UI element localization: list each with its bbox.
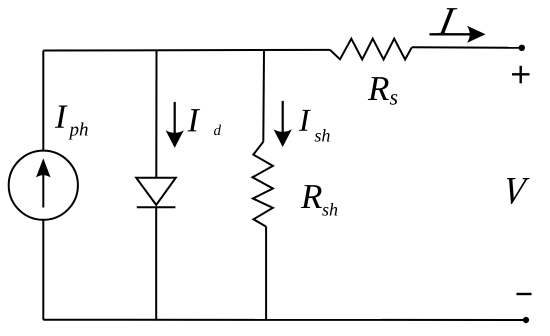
label R_sh [301,185,322,208]
wire: diode branch lower, cathode down to bottom rail [155,207,157,319]
wire: shunt branch upper, top rail down to R_sh [262,50,265,142]
label R_s [368,77,389,100]
label V (output voltage) [504,178,530,204]
label + (positive terminal polarity) [512,66,530,84]
arrow: output current I, pointing right [430,26,486,43]
resistor R_sh (shunt resistor vertical zigzag) [253,142,273,227]
wire: left branch lower, current source down to bottom rail [42,220,44,320]
node: positive output terminal dot [519,45,525,51]
wire: top rail, right segment from Rs to positive terminal [412,46,522,49]
node: negative output terminal dot [523,317,529,323]
label I_ph [55,106,68,128]
wire: diode branch upper, top rail down to diode anode [155,50,157,178]
current source I_ph circle [9,151,78,220]
label I_sh [299,110,311,131]
resistor R_s (series resistor zigzag) [330,39,412,60]
wire: top rail, left segment from top-left corner to Rs [43,49,330,52]
arrow: shunt current I_sh annotation, pointing down [274,101,292,147]
label I (output current) [437,8,458,34]
diode D: cathode bar [137,206,176,208]
arrow: current source arrow pointing up inside circle [36,158,51,207]
wire: bottom rail [43,319,526,321]
wire: shunt branch lower, R_sh down to bottom rail [265,227,267,320]
label I_d [187,109,200,131]
diode D: triangle pointing down (anode) [136,178,176,205]
label - (negative terminal polarity) [517,293,532,295]
arrow: diode current I_d annotation, pointing down [166,102,184,148]
wire: left branch upper, top rail down to current source [42,51,44,151]
